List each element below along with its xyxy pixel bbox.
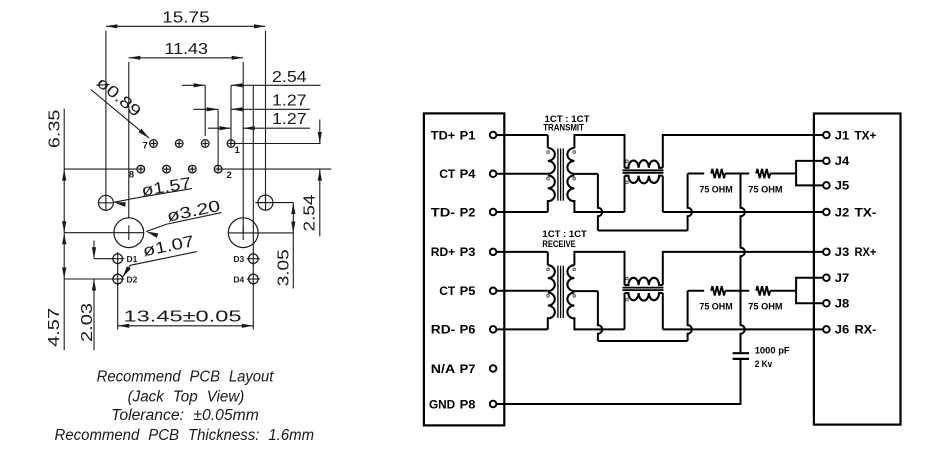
wire to R3: [688, 290, 705, 292]
extension line D4 column: [252, 284, 254, 330]
extension line big hole row right: [229, 232, 293, 234]
pin hole top row 3: [201, 140, 209, 148]
wire J4-J5 short link: [796, 161, 823, 186]
svg-text:1.27: 1.27: [272, 92, 307, 109]
pin hole D3: [247, 252, 260, 265]
connector body right (J pins): [814, 114, 901, 425]
wire R1 to R2: [725, 173, 749, 175]
dimension 4.57: [63, 233, 65, 351]
transformer T2 receive: [548, 265, 555, 318]
svg-text:2 Kv: 2 Kv: [755, 359, 773, 370]
svg-text:1: 1: [235, 145, 241, 156]
pin P5 CT: [490, 288, 497, 295]
pin hole top row 1: [227, 140, 235, 148]
svg-text:75 OHM: 75 OHM: [699, 184, 732, 194]
extension line pin8 row left: [64, 168, 137, 170]
svg-text:J5: J5: [835, 179, 850, 193]
wire RX CT branch up to R3 (hops J6 wire): [688, 291, 692, 341]
svg-text:GND: GND: [429, 397, 456, 411]
svg-text:P1: P1: [460, 128, 476, 142]
wire P4 to T1 center tap: [496, 173, 547, 175]
extension line left mounting hole (15.75): [105, 31, 107, 195]
svg-text:CT: CT: [439, 284, 456, 298]
extension line D2 row: [64, 278, 113, 280]
pin P6 RD-: [490, 326, 497, 333]
pin hole bottom row 4: [189, 165, 197, 173]
svg-text:Recommend PCB Layout: Recommend PCB Layout: [97, 368, 274, 385]
svg-text:1CT : 1CT: 1CT : 1CT: [542, 229, 587, 239]
wire T2 primary bottom feed: [547, 317, 549, 329]
wire CT branch rail: [598, 230, 688, 232]
pin J5: [823, 182, 830, 189]
svg-text:D2: D2: [127, 275, 138, 285]
svg-text:3.05: 3.05: [275, 249, 292, 286]
wire CT branch up to R1 (hops J2 wire): [688, 174, 692, 231]
svg-text:6.35: 6.35: [46, 110, 63, 149]
pin J1: [823, 132, 830, 139]
transformer T1 transmit: [548, 148, 555, 201]
svg-text:P2: P2: [460, 205, 476, 219]
pin hole D1: [111, 252, 124, 265]
wire choke L1 bottom right leg: [662, 176, 664, 212]
svg-text:TD-: TD-: [431, 205, 455, 219]
wire T2 secondary top to choke L2: [574, 252, 624, 285]
svg-text:2: 2: [227, 170, 232, 181]
leader diameter 3.20 big holes: [146, 213, 221, 232]
svg-text:RX+: RX+: [855, 245, 877, 259]
extension line left big hole (11.43): [128, 62, 130, 218]
svg-text:8: 8: [129, 170, 134, 181]
dimension 1.27 pin1 to hole: [208, 127, 231, 129]
common-mode choke L1 transmit: [625, 160, 663, 168]
extension line pin2 row right: [218, 168, 331, 170]
wire P1 to T1: [496, 134, 547, 136]
svg-text:J1: J1: [835, 128, 850, 142]
svg-text:TX-: TX-: [855, 205, 877, 219]
wire choke L2 to J6 RX-: [663, 328, 824, 330]
svg-text:P3: P3: [460, 245, 476, 259]
svg-text:(Jack Top View): (Jack Top View): [128, 389, 245, 406]
extension line pin3 column: [204, 85, 206, 136]
wire to R1: [688, 173, 705, 175]
wire choke L1 bottom left leg: [624, 176, 626, 212]
pin hole bottom row 2: [214, 165, 222, 173]
wire P3 to T2: [496, 251, 547, 253]
wire choke L1 to J2 TX-: [663, 211, 824, 213]
svg-text:2.54: 2.54: [272, 69, 307, 86]
wire choke L2 bottom right leg: [662, 293, 664, 329]
dimension 1.27 row offset: [193, 108, 218, 110]
wire choke L2 to J3 RX+: [663, 252, 824, 285]
svg-text:RX-: RX-: [855, 323, 877, 337]
dimension 2.54 row spacing: [319, 120, 321, 144]
extension line pin2 column: [217, 109, 219, 169]
resistor R2 75 OHM: [756, 169, 770, 178]
dimension 15.75: [106, 25, 266, 27]
wire T1 primary top feed: [547, 135, 549, 148]
wire T2 secondary CT: [574, 290, 598, 292]
wire D3-D4 link: [252, 264, 254, 275]
svg-text:RECEIVE: RECEIVE: [542, 239, 575, 249]
svg-text:P4: P4: [460, 167, 476, 181]
connector body left (P pins): [424, 113, 504, 425]
resistor R4 75 OHM: [756, 286, 770, 295]
pin hole bottom row 6: [163, 165, 171, 173]
mounting hole left dia 1.57: [98, 195, 113, 210]
pin J4: [823, 158, 830, 165]
wire P6 to T2: [496, 328, 547, 330]
common-mode choke L2 receive: [625, 278, 663, 286]
pin P7 N/A: [490, 365, 497, 372]
pin J2: [823, 209, 830, 216]
extension line right mounting hole row: [255, 202, 293, 204]
svg-text:J6: J6: [835, 323, 850, 337]
svg-text:P7: P7: [460, 362, 476, 376]
pin hole top row 7: [150, 140, 158, 148]
svg-text:N/A: N/A: [431, 362, 456, 376]
extension line D1 row: [94, 258, 113, 260]
svg-text:13.45±0.05: 13.45±0.05: [124, 309, 242, 326]
svg-text:D4: D4: [233, 275, 244, 285]
wire T1 secondary bottom to choke L1: [574, 200, 624, 212]
extension line pin1 column: [230, 85, 232, 143]
svg-text:D1: D1: [127, 254, 138, 264]
svg-text:J7: J7: [835, 271, 850, 285]
wire capacitor to GND P8: [496, 359, 740, 404]
wire CT branch down (hops TX- wire): [598, 174, 602, 231]
pin J6: [823, 326, 830, 333]
svg-text:75 OHM: 75 OHM: [748, 302, 782, 312]
svg-text:15.75: 15.75: [162, 9, 210, 26]
svg-text:11.43: 11.43: [164, 41, 208, 58]
extension line right mounting hole (15.75): [265, 31, 267, 195]
pin P3 RD+: [490, 249, 497, 256]
dimension 3.05: [292, 203, 294, 289]
svg-text:2.03: 2.03: [79, 303, 96, 342]
svg-text:1.27: 1.27: [272, 111, 307, 128]
mounting hole right dia 1.57: [258, 195, 273, 210]
pin hole D4: [247, 272, 260, 285]
svg-text:7: 7: [143, 140, 148, 151]
capacitor C1 1000 pF 2 Kv: [733, 352, 749, 354]
wire D1-D2 link: [117, 264, 119, 275]
svg-text:D3: D3: [233, 254, 244, 264]
svg-text:4.57: 4.57: [46, 308, 63, 347]
pin P4 CT: [490, 171, 497, 178]
dimension 2.03: [93, 241, 95, 259]
wire termination bus down to capacitor: [741, 174, 745, 354]
svg-text:75 OHM: 75 OHM: [699, 302, 732, 312]
svg-text:J4: J4: [835, 154, 850, 168]
dimension 6.35: [63, 109, 65, 233]
big hole left dia 3.20: [114, 218, 144, 248]
wire P5 to T2 center tap: [496, 290, 547, 292]
pin J8: [823, 300, 830, 307]
extension line right big hole (11.43): [242, 62, 244, 233]
svg-text:TX+: TX+: [855, 128, 877, 142]
wire choke L2 bottom left leg: [624, 293, 626, 329]
svg-text:TRANSMIT: TRANSMIT: [543, 123, 584, 133]
wire choke L1 to J1 TX+: [663, 135, 824, 168]
leader diameter 1.57 mounting holes: [114, 189, 192, 203]
wire RX CT branch down (hops RX- wire): [598, 291, 602, 341]
wire R2 to J4/J5 link: [770, 173, 796, 175]
extension line D3 column: [252, 85, 254, 254]
wire T1 primary bottom feed: [547, 200, 549, 212]
svg-text:TD+: TD+: [431, 128, 455, 142]
wire T1 secondary top to choke L1: [574, 135, 624, 168]
svg-text:RD+: RD+: [431, 245, 455, 259]
svg-text:75 OHM: 75 OHM: [748, 184, 782, 194]
svg-text:J2: J2: [835, 205, 850, 219]
wire T2 secondary bottom to choke L2: [574, 317, 624, 329]
svg-text:1000 pF: 1000 pF: [755, 345, 790, 356]
wire R3 to R4: [725, 290, 749, 292]
pin hole top row 5: [175, 140, 183, 148]
pin J3: [823, 249, 830, 256]
wire T2 primary top feed: [547, 252, 549, 265]
svg-text:Recommend PCB Thickness: 1.6mm: Recommend PCB Thickness: 1.6mm: [55, 427, 315, 444]
resistor R3 75 OHM: [711, 286, 725, 295]
resistor R1 75 OHM: [711, 169, 725, 178]
extension line big hole row left: [64, 232, 144, 234]
leader diameter 1.07 D pins: [122, 252, 197, 278]
leader diameter 0.89 pin hole: [91, 90, 149, 139]
big hole right dia 3.20: [228, 218, 258, 248]
pin P8 GND: [490, 401, 497, 408]
wire P2 to T1: [496, 211, 547, 213]
extension line pin1 row: [231, 143, 321, 145]
svg-text:RD-: RD-: [431, 323, 455, 337]
svg-text:J3: J3: [835, 245, 850, 259]
svg-text:Tolerance: ±0.05mm: Tolerance: ±0.05mm: [111, 407, 259, 424]
dimension 11.43: [129, 57, 243, 59]
dimension 13.45 plus/minus 0.05: [118, 325, 254, 327]
pin hole bottom row 8: [137, 165, 145, 173]
extension line D2 column: [117, 284, 119, 330]
svg-text:CT: CT: [439, 167, 456, 181]
wire RX CT branch rail: [598, 340, 688, 342]
pin J7: [823, 274, 830, 281]
svg-text:P8: P8: [460, 397, 476, 411]
pin P1 TD+: [490, 132, 497, 139]
wire J7-J8 short link: [796, 278, 823, 304]
wire R4 to J7/J8 link: [770, 290, 796, 292]
pin P2 TD-: [490, 209, 497, 216]
pin hole D2: [111, 272, 124, 285]
svg-text:P6: P6: [460, 323, 476, 337]
svg-text:P5: P5: [460, 284, 476, 298]
dimension 2.54 pin pitch: [182, 84, 205, 86]
svg-text:2.54: 2.54: [302, 194, 319, 231]
svg-text:J8: J8: [835, 297, 850, 311]
wire T1 secondary CT: [574, 173, 598, 175]
